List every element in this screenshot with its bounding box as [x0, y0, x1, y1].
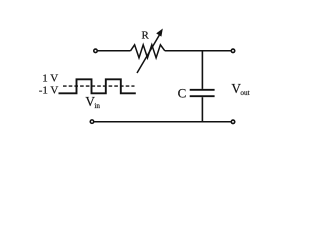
wire (bottom horizontal rail)	[94, 121, 231, 123]
capacitor C (two plates)	[190, 90, 215, 96]
wire (vertical from capacitor to bottom rail)	[201, 97, 203, 122]
svg-text:C: C	[178, 85, 187, 100]
wire (dashed zero-level line of waveform)	[63, 85, 135, 87]
svg-text:1 V: 1 V	[42, 72, 58, 84]
wire (top-right horizontal to Vout terminal)	[165, 50, 231, 52]
node square-wave input signal	[59, 79, 136, 93]
svg-text:-1 V: -1 V	[39, 84, 59, 96]
node Vout- terminal (bottom-right open circle)	[231, 120, 235, 124]
resistor R (zigzag)	[131, 45, 165, 58]
wire (vertical from top rail to capacitor)	[201, 51, 203, 89]
wire (top-left horizontal)	[98, 50, 131, 52]
arrow (variable resistor adjustment)	[137, 29, 163, 74]
node Vout+ terminal (top-right open circle)	[231, 49, 235, 53]
svg-text:R: R	[142, 30, 150, 42]
node Vin+ terminal (top-left open circle)	[94, 49, 98, 53]
node Vin- terminal (bottom-left open circle)	[90, 120, 94, 124]
